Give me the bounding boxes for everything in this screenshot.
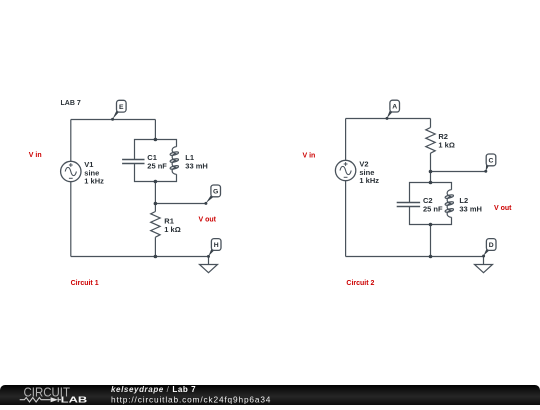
wire source bottom circuit 1 [70, 182, 72, 257]
node flag D [482, 239, 496, 258]
wire LC tank bottom circuit 2 [410, 207, 452, 225]
svg-text:1 kHz: 1 kHz [359, 176, 379, 185]
svg-text:LAB: LAB [61, 396, 88, 405]
wire node C tap circuit 2 [431, 171, 486, 173]
wire from top to LC tank circuit 1 [154, 120, 156, 140]
voltage source V2 [335, 160, 355, 180]
ground circuit 1 [200, 257, 218, 273]
svg-text:Circuit 1: Circuit 1 [71, 280, 99, 287]
node junction dots circuit 2 [429, 170, 433, 259]
svg-text:http://circuitlab.com/ck24fq9h: http://circuitlab.com/ck24fq9hp6a34 [111, 394, 271, 404]
svg-text:LAB 7: LAB 7 [61, 100, 81, 107]
ground circuit 2 [475, 257, 493, 273]
node flag C [484, 154, 496, 173]
svg-text:G: G [213, 189, 218, 196]
inductor L2 [445, 190, 454, 218]
wire bottom horizontal circuit 2 [346, 256, 484, 258]
svg-text:V out: V out [494, 205, 512, 212]
wire top horizontal circuit 1 [71, 119, 156, 121]
wire source bottom circuit 2 [345, 181, 347, 257]
svg-text:33 mH: 33 mH [459, 204, 482, 213]
node junction dots circuit 1 [154, 138, 158, 259]
wire LC tank bottom circuit 1 [135, 164, 177, 182]
svg-text:D: D [489, 242, 494, 249]
svg-text:H: H [214, 242, 219, 249]
wire top to resistor circuit 2 [430, 119, 432, 128]
label L1 33 mH [185, 153, 208, 170]
svg-text:1 kHz: 1 kHz [84, 177, 104, 186]
wire LC tank to resistor circuit 1 [154, 182, 156, 212]
inductor L1 [170, 147, 179, 175]
svg-text:1 kΩ: 1 kΩ [164, 225, 180, 234]
capacitor C2 [397, 203, 420, 207]
label C2 25 nF [423, 196, 443, 213]
svg-text:kelseydrape / Lab 7: kelseydrape / Lab 7 [111, 385, 196, 394]
footer bar [0, 385, 540, 405]
svg-text:V in: V in [303, 153, 316, 160]
wire top horizontal circuit 2 [346, 118, 431, 120]
svg-text:1 kΩ: 1 kΩ [438, 140, 454, 149]
svg-text:25 nF: 25 nF [423, 204, 443, 213]
capacitor C1 [122, 160, 144, 164]
label V1 sine 1 kHz [84, 160, 104, 186]
wire top left vertical circuit 1 [70, 120, 72, 162]
node flag E [111, 100, 126, 121]
svg-text:V out: V out [199, 217, 217, 224]
resistor R1 [151, 212, 160, 238]
label R2 1 kOhm [438, 132, 454, 149]
svg-text:A: A [392, 104, 397, 111]
wire LC tank top circuit 1 [135, 140, 177, 160]
wire top left vertical circuit 2 [345, 119, 347, 161]
wire node G tap circuit 1 [155, 203, 205, 205]
label C1 25 nF [147, 153, 167, 170]
svg-text:C: C [489, 158, 494, 165]
label L2 33 mH [459, 196, 482, 213]
node flag G [204, 185, 220, 205]
wire resistor to bottom circuit 1 [154, 237, 156, 256]
svg-text:Circuit 2: Circuit 2 [346, 280, 374, 287]
wire LC tank top circuit 2 [410, 183, 452, 203]
svg-text:E: E [119, 104, 124, 111]
svg-text:25 nF: 25 nF [147, 161, 167, 170]
wire bottom horizontal circuit 1 [71, 256, 209, 258]
svg-text:33 mH: 33 mH [185, 161, 208, 170]
node flag A [386, 100, 400, 120]
label V2 sine 1 kHz [359, 160, 379, 186]
resistor R2 [426, 128, 435, 154]
label R1 1 kOhm [164, 217, 180, 234]
node flag H [207, 239, 221, 258]
logo wire with resistor and diode [20, 397, 61, 402]
svg-text:V in: V in [29, 152, 42, 159]
wire resistor to LC tank circuit 2 [430, 153, 432, 182]
voltage source V1 [61, 161, 81, 181]
wire LC tank to bottom circuit 2 [430, 225, 432, 257]
